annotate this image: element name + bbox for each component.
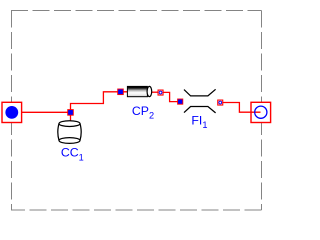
- right port P2 circle: [255, 106, 267, 118]
- junction J1: [68, 110, 74, 116]
- wire: port PP1 down to junction J3: [161, 92, 181, 101]
- wire: port PP2 to right port P2: [222, 103, 260, 113]
- svg-text:CC1: CC1: [61, 146, 84, 163]
- junction J2: [118, 89, 124, 95]
- wire: junction J1 down to CC1: [70, 112, 72, 122]
- wire: CP2 right end to port PP1: [147, 91, 161, 93]
- wire: junction J1 up staircase to junction J2 and CP2: [71, 92, 129, 113]
- port PP1 (CP2 right connector): [158, 90, 163, 95]
- left port P1 (boundary connector, filled circle): [2, 102, 22, 122]
- diagram frame (dashed border): [11, 11, 262, 211]
- wire: left port to junction J1: [22, 111, 71, 113]
- junction J3: [178, 99, 183, 104]
- component FI1 (venturi / flow restriction): [184, 89, 216, 113]
- svg-text:FI1: FI1: [191, 113, 207, 130]
- component CC1 (canister): [58, 121, 81, 144]
- component CP2 (horizontal cylinder / pipe): [127, 86, 151, 96]
- right port P2 (boundary connector, open circle): [251, 102, 271, 122]
- port PP2 (FI1 right connector): [218, 100, 223, 105]
- svg-text:CP2: CP2: [132, 104, 154, 121]
